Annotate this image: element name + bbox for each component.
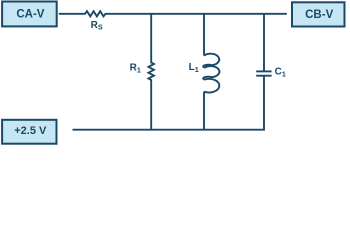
svg-text:CA-V: CA-V (16, 9, 44, 21)
svg-text:+2.5 V: +2.5 V (14, 125, 47, 137)
svg-text:C1: C1 (275, 66, 286, 78)
svg-text:RS: RS (91, 20, 103, 32)
svg-text:R1: R1 (130, 62, 141, 74)
svg-text:CB-V: CB-V (305, 9, 333, 21)
svg-text:L1: L1 (189, 62, 199, 74)
